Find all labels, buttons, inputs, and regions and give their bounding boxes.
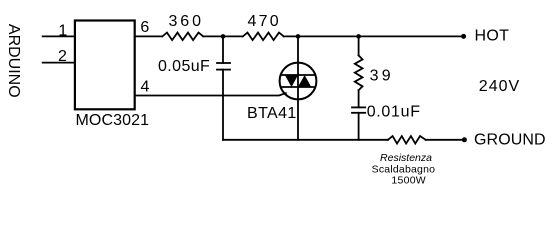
svg-text:39: 39 (370, 67, 394, 84)
svg-text:0.05uF: 0.05uF (158, 58, 210, 75)
svg-text:Resistenza: Resistenza (380, 152, 432, 164)
svg-text:240V: 240V (479, 78, 520, 95)
svg-text:HOT: HOT (475, 28, 510, 45)
svg-text:GROUND: GROUND (474, 132, 546, 149)
svg-text:360: 360 (169, 13, 204, 30)
svg-text:1500W: 1500W (391, 175, 426, 187)
svg-text:1: 1 (58, 22, 67, 39)
svg-text:MOC3021: MOC3021 (76, 112, 150, 129)
svg-text:6: 6 (140, 19, 149, 36)
svg-text:ARDUINO: ARDUINO (5, 24, 22, 98)
svg-text:470: 470 (248, 13, 281, 30)
svg-text:2: 2 (58, 48, 67, 65)
svg-text:BTA41: BTA41 (247, 105, 297, 122)
svg-text:4: 4 (141, 79, 150, 96)
svg-text:0.01uF: 0.01uF (367, 103, 421, 120)
